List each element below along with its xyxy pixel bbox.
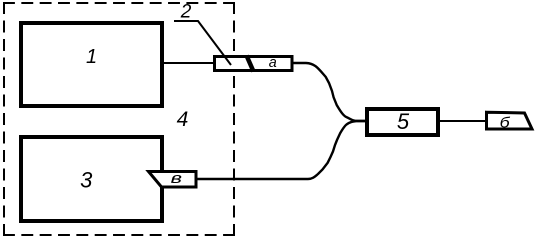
svg-text:5: 5 xyxy=(397,109,410,134)
svg-text:3: 3 xyxy=(80,167,93,192)
svg-text:в: в xyxy=(171,170,183,187)
svg-text:б: б xyxy=(500,115,511,131)
svg-text:4: 4 xyxy=(177,108,189,131)
svg-text:1: 1 xyxy=(86,46,97,68)
svg-text:а: а xyxy=(269,55,277,71)
svg-text:2: 2 xyxy=(180,2,192,23)
